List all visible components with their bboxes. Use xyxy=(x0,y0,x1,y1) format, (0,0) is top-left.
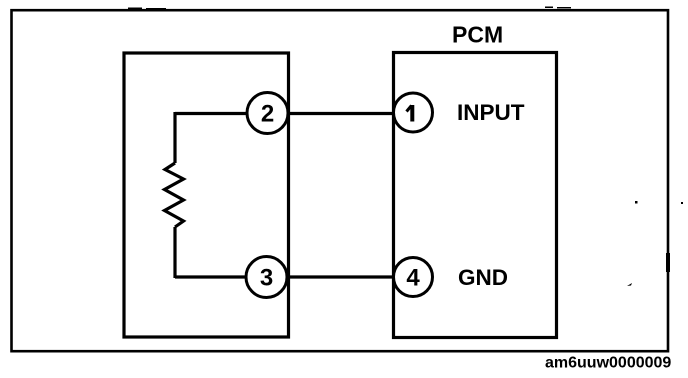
svg-text:INPUT: INPUT xyxy=(457,100,525,125)
svg-text:2: 2 xyxy=(261,101,274,128)
svg-text:am6uuw0000009: am6uuw0000009 xyxy=(545,355,671,372)
svg-text:4: 4 xyxy=(406,265,420,292)
svg-text:GND: GND xyxy=(458,265,508,290)
svg-text:3: 3 xyxy=(260,265,273,292)
svg-text:PCM: PCM xyxy=(452,22,503,48)
